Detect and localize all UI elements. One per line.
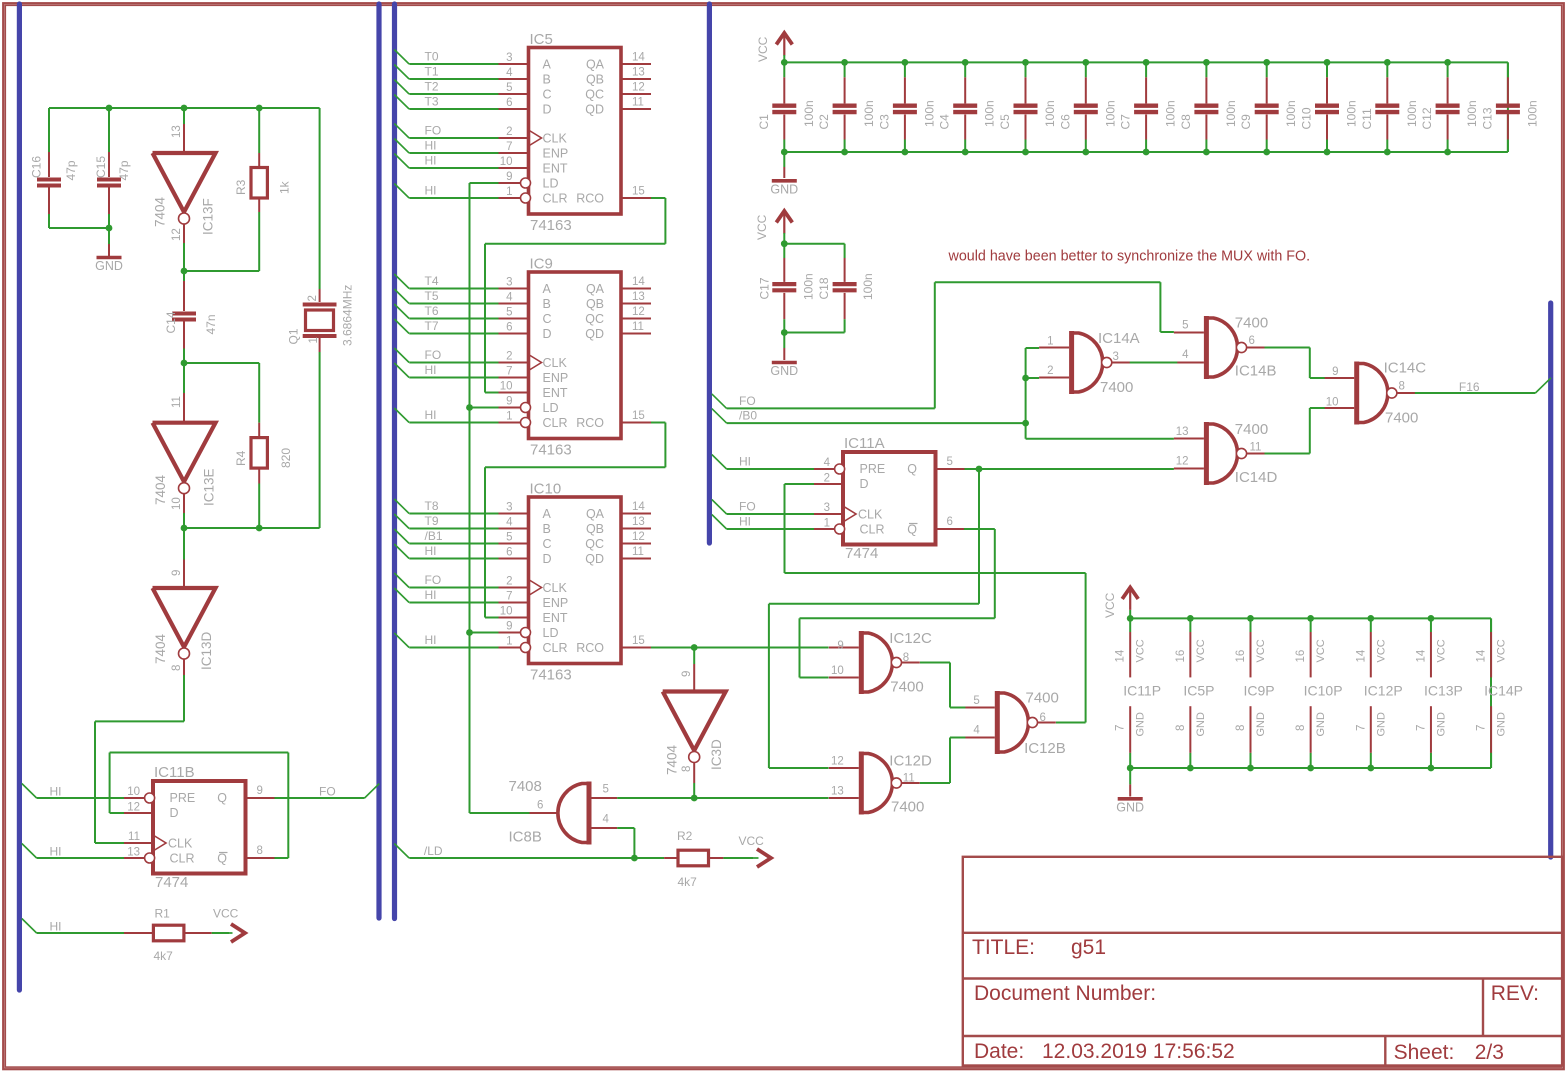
svg-text:IC14P: IC14P bbox=[1484, 683, 1523, 699]
svg-text:FO: FO bbox=[739, 500, 756, 514]
svg-text:4: 4 bbox=[1182, 349, 1189, 361]
svg-text:100n: 100n bbox=[1103, 100, 1117, 127]
svg-text:GND: GND bbox=[1116, 800, 1144, 814]
svg-text:QB: QB bbox=[586, 297, 604, 311]
svg-text:11: 11 bbox=[632, 546, 644, 558]
svg-text:4: 4 bbox=[603, 814, 610, 826]
svg-text:QA: QA bbox=[586, 507, 605, 521]
svg-text:C: C bbox=[543, 312, 552, 326]
svg-text:100n: 100n bbox=[802, 273, 816, 300]
svg-text:11: 11 bbox=[171, 396, 183, 408]
svg-text:IC5P: IC5P bbox=[1183, 683, 1214, 699]
svg-text:9: 9 bbox=[506, 396, 512, 408]
svg-text:C9: C9 bbox=[1239, 114, 1253, 130]
svg-text:CLK: CLK bbox=[543, 132, 568, 146]
svg-text:7400: 7400 bbox=[890, 679, 923, 696]
svg-text:R3: R3 bbox=[234, 179, 248, 195]
svg-text:C6: C6 bbox=[1058, 114, 1072, 130]
svg-text:HI: HI bbox=[50, 785, 62, 799]
svg-text:CLR: CLR bbox=[543, 192, 568, 206]
svg-text:5: 5 bbox=[506, 307, 512, 319]
svg-text:g51: g51 bbox=[1071, 936, 1106, 959]
svg-text:D: D bbox=[170, 806, 179, 820]
svg-text:7474: 7474 bbox=[845, 545, 878, 562]
svg-text:9: 9 bbox=[837, 640, 843, 652]
svg-text:D: D bbox=[860, 477, 869, 491]
svg-text:IC13D: IC13D bbox=[199, 631, 214, 670]
svg-text:Q: Q bbox=[217, 791, 227, 805]
svg-text:1: 1 bbox=[1047, 336, 1053, 348]
svg-text:7474: 7474 bbox=[155, 874, 188, 891]
svg-text:PRE: PRE bbox=[860, 462, 886, 476]
svg-text:9: 9 bbox=[506, 171, 512, 183]
svg-text:C13: C13 bbox=[1480, 107, 1494, 129]
svg-text:C: C bbox=[543, 537, 552, 551]
svg-text:QB: QB bbox=[586, 73, 604, 87]
svg-text:C17: C17 bbox=[758, 277, 772, 299]
svg-text:9: 9 bbox=[257, 785, 263, 797]
svg-text:4: 4 bbox=[824, 457, 831, 469]
svg-text:C10: C10 bbox=[1300, 107, 1314, 129]
svg-text:7400: 7400 bbox=[1235, 315, 1268, 332]
svg-text:6: 6 bbox=[537, 800, 543, 812]
svg-text:7: 7 bbox=[1355, 725, 1367, 731]
svg-text:12: 12 bbox=[1176, 456, 1189, 468]
svg-text:IC11A: IC11A bbox=[844, 435, 885, 452]
svg-text:IC12B: IC12B bbox=[1024, 740, 1066, 757]
svg-text:9: 9 bbox=[1332, 366, 1338, 378]
svg-text:T1: T1 bbox=[425, 65, 439, 79]
svg-text:3: 3 bbox=[506, 502, 512, 514]
svg-text:HI: HI bbox=[425, 154, 437, 168]
svg-text:QD: QD bbox=[585, 103, 604, 117]
svg-text:GND: GND bbox=[1255, 712, 1267, 737]
svg-text:7: 7 bbox=[506, 366, 512, 378]
svg-text:HI: HI bbox=[50, 845, 62, 859]
svg-text:1: 1 bbox=[506, 411, 512, 423]
svg-text:QD: QD bbox=[585, 552, 604, 566]
svg-text:3: 3 bbox=[824, 502, 830, 514]
svg-text:6: 6 bbox=[506, 322, 512, 334]
svg-text:IC13F: IC13F bbox=[201, 198, 216, 235]
svg-text:T0: T0 bbox=[425, 50, 439, 64]
svg-text:HI: HI bbox=[425, 588, 437, 602]
svg-text:B: B bbox=[543, 297, 551, 311]
svg-text:47n: 47n bbox=[204, 314, 218, 334]
svg-text:IC14C: IC14C bbox=[1384, 360, 1427, 377]
svg-text:A: A bbox=[543, 58, 552, 72]
svg-text:4: 4 bbox=[506, 67, 513, 79]
svg-text:11: 11 bbox=[632, 321, 644, 333]
svg-text:CLR: CLR bbox=[543, 641, 568, 655]
svg-text:3: 3 bbox=[506, 52, 512, 64]
svg-text:100n: 100n bbox=[1345, 100, 1359, 127]
svg-text:6: 6 bbox=[947, 516, 953, 528]
svg-text:10: 10 bbox=[500, 156, 513, 168]
svg-text:7400: 7400 bbox=[891, 799, 924, 816]
svg-text:T2: T2 bbox=[425, 80, 439, 94]
svg-text:74163: 74163 bbox=[530, 442, 572, 459]
svg-text:IC11B: IC11B bbox=[154, 764, 195, 781]
svg-text:IC9P: IC9P bbox=[1244, 683, 1275, 699]
svg-text:1k: 1k bbox=[278, 180, 292, 194]
svg-text:CLK: CLK bbox=[543, 581, 568, 595]
svg-text:A: A bbox=[543, 282, 552, 296]
svg-text:GND: GND bbox=[1315, 712, 1327, 737]
svg-text:47p: 47p bbox=[64, 160, 78, 180]
svg-text:11: 11 bbox=[632, 97, 644, 109]
svg-text:PRE: PRE bbox=[170, 791, 196, 805]
svg-text:C3: C3 bbox=[877, 114, 891, 130]
svg-text:VCC: VCC bbox=[1195, 639, 1207, 662]
svg-text:14: 14 bbox=[1415, 649, 1427, 662]
svg-text:HI: HI bbox=[739, 455, 751, 469]
svg-text:1: 1 bbox=[506, 636, 512, 648]
svg-text:R2: R2 bbox=[677, 829, 693, 843]
svg-text:CLK: CLK bbox=[858, 508, 883, 522]
svg-text:RCO: RCO bbox=[576, 641, 604, 655]
svg-text:1: 1 bbox=[506, 186, 512, 198]
svg-text:12: 12 bbox=[632, 531, 645, 543]
svg-text:GND: GND bbox=[770, 182, 798, 196]
svg-text:4k7: 4k7 bbox=[678, 875, 698, 889]
svg-text:ENP: ENP bbox=[543, 371, 569, 385]
svg-text:1: 1 bbox=[308, 337, 320, 343]
svg-text:R4: R4 bbox=[234, 450, 248, 466]
svg-text:14: 14 bbox=[1476, 649, 1488, 662]
svg-text:4: 4 bbox=[973, 725, 980, 737]
svg-text:11: 11 bbox=[903, 773, 915, 785]
svg-text:15: 15 bbox=[632, 186, 645, 198]
svg-text:8: 8 bbox=[903, 652, 909, 664]
svg-text:REV:: REV: bbox=[1491, 982, 1539, 1005]
svg-text:100n: 100n bbox=[922, 100, 936, 127]
svg-text:13: 13 bbox=[1176, 426, 1189, 438]
svg-text:7400: 7400 bbox=[1026, 690, 1059, 707]
svg-text:100n: 100n bbox=[802, 100, 816, 127]
svg-text:12: 12 bbox=[171, 228, 183, 241]
svg-text:C12: C12 bbox=[1420, 107, 1434, 129]
svg-text:10: 10 bbox=[500, 381, 513, 393]
svg-text:12: 12 bbox=[831, 756, 844, 768]
svg-text:C4: C4 bbox=[938, 114, 952, 130]
svg-text:QC: QC bbox=[585, 537, 604, 551]
svg-text:GND: GND bbox=[1375, 712, 1387, 737]
svg-text:5: 5 bbox=[947, 456, 953, 468]
svg-text:16: 16 bbox=[1235, 650, 1247, 663]
svg-text:FO: FO bbox=[425, 348, 442, 362]
svg-text:IC12P: IC12P bbox=[1364, 683, 1403, 699]
svg-text:C5: C5 bbox=[998, 114, 1012, 130]
svg-text:15: 15 bbox=[632, 635, 645, 647]
svg-text:Document Number:: Document Number: bbox=[974, 982, 1156, 1005]
svg-text:Q1: Q1 bbox=[287, 328, 301, 344]
svg-text:100n: 100n bbox=[1405, 100, 1419, 127]
svg-text:5: 5 bbox=[506, 82, 512, 94]
svg-text:IC9: IC9 bbox=[530, 256, 553, 273]
svg-text:13: 13 bbox=[632, 516, 645, 528]
svg-text:/B1: /B1 bbox=[425, 529, 443, 543]
svg-text:16: 16 bbox=[1175, 650, 1187, 663]
svg-text:A: A bbox=[543, 507, 552, 521]
svg-text:Q: Q bbox=[907, 462, 917, 476]
svg-text:Q: Q bbox=[907, 523, 917, 537]
svg-text:7404: 7404 bbox=[665, 744, 680, 775]
svg-text:12: 12 bbox=[127, 802, 140, 814]
svg-text:14: 14 bbox=[1355, 649, 1367, 662]
svg-text:IC14A: IC14A bbox=[1098, 330, 1140, 347]
svg-text:IC14D: IC14D bbox=[1235, 469, 1278, 486]
svg-text:HI: HI bbox=[425, 139, 437, 153]
svg-text:8: 8 bbox=[1399, 381, 1405, 393]
svg-text:HI: HI bbox=[425, 544, 437, 558]
svg-text:T4: T4 bbox=[425, 274, 439, 288]
svg-text:R1: R1 bbox=[155, 907, 171, 921]
svg-text:QA: QA bbox=[586, 58, 605, 72]
svg-text:T5: T5 bbox=[425, 289, 439, 303]
svg-text:B: B bbox=[543, 522, 551, 536]
svg-text:CLK: CLK bbox=[543, 356, 568, 370]
svg-text:ENP: ENP bbox=[543, 596, 569, 610]
svg-text:2: 2 bbox=[307, 295, 319, 301]
svg-text:C: C bbox=[543, 88, 552, 102]
svg-text:7: 7 bbox=[1476, 725, 1488, 731]
svg-text:F16: F16 bbox=[1459, 380, 1480, 394]
svg-text:7: 7 bbox=[506, 141, 512, 153]
svg-text:FO: FO bbox=[425, 573, 442, 587]
svg-text:QC: QC bbox=[585, 88, 604, 102]
svg-text:IC12C: IC12C bbox=[889, 630, 932, 647]
svg-text:VCC: VCC bbox=[1103, 592, 1117, 618]
svg-text:D: D bbox=[543, 103, 552, 117]
svg-text:C1: C1 bbox=[757, 114, 771, 130]
svg-text:47p: 47p bbox=[117, 160, 131, 180]
svg-text:FO: FO bbox=[425, 124, 442, 138]
svg-text:C2: C2 bbox=[817, 114, 831, 130]
svg-text:C14: C14 bbox=[164, 311, 178, 333]
svg-text:CLR: CLR bbox=[860, 523, 885, 537]
svg-text:IC13E: IC13E bbox=[202, 468, 217, 506]
svg-text:3: 3 bbox=[506, 277, 512, 289]
svg-text:Q: Q bbox=[217, 852, 227, 866]
svg-text:6: 6 bbox=[1040, 712, 1046, 724]
svg-text:QB: QB bbox=[586, 522, 604, 536]
svg-text:10: 10 bbox=[171, 497, 183, 510]
svg-text:13: 13 bbox=[127, 847, 140, 859]
svg-text:/B0: /B0 bbox=[739, 409, 757, 423]
svg-text:6: 6 bbox=[506, 97, 512, 109]
svg-text:3.6864MHz: 3.6864MHz bbox=[341, 285, 355, 346]
svg-text:820: 820 bbox=[279, 448, 293, 468]
svg-text:9: 9 bbox=[171, 570, 183, 576]
svg-text:100n: 100n bbox=[1164, 100, 1178, 127]
svg-text:14: 14 bbox=[632, 276, 645, 288]
svg-text:VCC: VCC bbox=[1496, 639, 1508, 662]
svg-text:Sheet:: Sheet: bbox=[1394, 1041, 1455, 1064]
svg-text:/LD: /LD bbox=[424, 844, 443, 858]
svg-text:C18: C18 bbox=[817, 277, 831, 299]
svg-text:9: 9 bbox=[506, 621, 512, 633]
svg-text:8: 8 bbox=[171, 665, 183, 671]
svg-text:CLR: CLR bbox=[170, 852, 195, 866]
svg-text:CLK: CLK bbox=[168, 837, 193, 851]
svg-text:7404: 7404 bbox=[153, 633, 168, 664]
svg-text:8: 8 bbox=[1295, 725, 1307, 731]
svg-text:2: 2 bbox=[506, 576, 512, 588]
svg-text:IC3D: IC3D bbox=[709, 739, 724, 770]
svg-text:IC14B: IC14B bbox=[1235, 363, 1277, 380]
svg-text:VCC: VCC bbox=[1315, 639, 1327, 662]
svg-text:7: 7 bbox=[1115, 725, 1127, 731]
svg-text:2: 2 bbox=[1047, 365, 1053, 377]
svg-text:D: D bbox=[543, 552, 552, 566]
svg-text:14: 14 bbox=[1115, 649, 1127, 662]
svg-text:11: 11 bbox=[1250, 442, 1262, 454]
svg-text:2: 2 bbox=[506, 351, 512, 363]
svg-text:6: 6 bbox=[506, 547, 512, 559]
svg-text:5: 5 bbox=[973, 695, 979, 707]
svg-text:100n: 100n bbox=[861, 273, 875, 300]
svg-text:CLR: CLR bbox=[543, 416, 568, 430]
svg-text:10: 10 bbox=[500, 606, 513, 618]
svg-text:12.03.2019 17:56:52: 12.03.2019 17:56:52 bbox=[1042, 1040, 1235, 1063]
svg-text:VCC: VCC bbox=[1375, 639, 1387, 662]
svg-text:ENP: ENP bbox=[543, 147, 569, 161]
svg-text:RCO: RCO bbox=[576, 192, 604, 206]
svg-text:5: 5 bbox=[1182, 320, 1188, 332]
svg-text:14: 14 bbox=[632, 501, 645, 513]
svg-text:T7: T7 bbox=[425, 319, 439, 333]
svg-text:TITLE:: TITLE: bbox=[972, 936, 1035, 959]
svg-text:C15: C15 bbox=[94, 156, 108, 178]
svg-text:7404: 7404 bbox=[153, 474, 168, 505]
svg-text:GND: GND bbox=[770, 364, 798, 378]
svg-text:2: 2 bbox=[506, 126, 512, 138]
svg-text:13: 13 bbox=[632, 291, 645, 303]
svg-text:100n: 100n bbox=[1224, 100, 1238, 127]
svg-text:HI: HI bbox=[425, 408, 437, 422]
svg-text:10: 10 bbox=[127, 786, 140, 798]
svg-text:7: 7 bbox=[1415, 725, 1427, 731]
svg-text:ENT: ENT bbox=[543, 611, 568, 625]
svg-text:HI: HI bbox=[425, 184, 437, 198]
svg-text:QC: QC bbox=[585, 312, 604, 326]
svg-text:74163: 74163 bbox=[530, 217, 572, 234]
svg-text:HI: HI bbox=[50, 920, 62, 934]
svg-text:IC12D: IC12D bbox=[889, 753, 932, 770]
svg-text:VCC: VCC bbox=[213, 907, 239, 921]
svg-text:10: 10 bbox=[1326, 397, 1339, 409]
svg-text:13: 13 bbox=[831, 786, 844, 798]
svg-text:IC10: IC10 bbox=[530, 481, 562, 498]
svg-text:7400: 7400 bbox=[1100, 379, 1133, 396]
svg-text:13: 13 bbox=[171, 125, 183, 138]
svg-text:4: 4 bbox=[506, 292, 513, 304]
svg-text:QD: QD bbox=[585, 327, 604, 341]
svg-text:IC11P: IC11P bbox=[1123, 683, 1161, 699]
svg-text:7: 7 bbox=[506, 591, 512, 603]
svg-text:LD: LD bbox=[543, 177, 559, 191]
svg-text:9: 9 bbox=[681, 671, 693, 677]
svg-text:would have been better to sync: would have been better to synchronize th… bbox=[948, 249, 1311, 265]
svg-text:10: 10 bbox=[831, 665, 844, 677]
svg-text:LD: LD bbox=[543, 401, 559, 415]
svg-text:T3: T3 bbox=[425, 95, 439, 109]
svg-text:GND: GND bbox=[1195, 712, 1207, 737]
svg-text:IC8B: IC8B bbox=[509, 829, 542, 846]
svg-text:HI: HI bbox=[739, 515, 751, 529]
svg-text:100n: 100n bbox=[862, 100, 876, 127]
svg-text:100n: 100n bbox=[1284, 100, 1298, 127]
svg-text:4k7: 4k7 bbox=[154, 949, 174, 963]
svg-text:T8: T8 bbox=[425, 499, 439, 513]
svg-text:15: 15 bbox=[632, 410, 645, 422]
svg-text:12: 12 bbox=[632, 306, 645, 318]
svg-text:C11: C11 bbox=[1360, 108, 1374, 129]
svg-text:13: 13 bbox=[632, 67, 645, 79]
svg-text:GND: GND bbox=[1496, 712, 1508, 737]
svg-text:FO: FO bbox=[319, 785, 336, 799]
svg-text:7408: 7408 bbox=[509, 778, 542, 795]
svg-text:ENT: ENT bbox=[543, 162, 568, 176]
svg-text:16: 16 bbox=[1295, 650, 1307, 663]
svg-text:GND: GND bbox=[1435, 712, 1447, 737]
svg-text:C7: C7 bbox=[1119, 114, 1133, 130]
svg-text:12: 12 bbox=[632, 82, 645, 94]
svg-text:7400: 7400 bbox=[1235, 421, 1268, 438]
svg-text:RCO: RCO bbox=[576, 416, 604, 430]
svg-text:1: 1 bbox=[824, 518, 830, 530]
svg-text:100n: 100n bbox=[1043, 100, 1057, 127]
svg-text:8: 8 bbox=[681, 766, 693, 772]
svg-text:Date:: Date: bbox=[974, 1040, 1024, 1063]
svg-text:C16: C16 bbox=[30, 156, 44, 178]
svg-text:GND: GND bbox=[95, 259, 123, 273]
svg-text:VCC: VCC bbox=[755, 214, 769, 240]
svg-text:100n: 100n bbox=[1465, 100, 1479, 127]
svg-text:5: 5 bbox=[506, 532, 512, 544]
svg-text:11: 11 bbox=[128, 831, 140, 843]
svg-text:ENT: ENT bbox=[543, 386, 568, 400]
svg-text:100n: 100n bbox=[1525, 100, 1539, 127]
svg-text:100n: 100n bbox=[983, 100, 997, 127]
svg-text:6: 6 bbox=[1249, 335, 1255, 347]
svg-text:3: 3 bbox=[1113, 351, 1119, 363]
svg-text:C8: C8 bbox=[1179, 114, 1193, 130]
svg-text:HI: HI bbox=[425, 363, 437, 377]
svg-text:QA: QA bbox=[586, 282, 605, 296]
svg-text:5: 5 bbox=[603, 784, 609, 796]
svg-text:IC10P: IC10P bbox=[1304, 683, 1343, 699]
svg-text:LD: LD bbox=[543, 626, 559, 640]
svg-text:T9: T9 bbox=[425, 514, 439, 528]
svg-text:VCC: VCC bbox=[756, 36, 770, 62]
svg-text:HI: HI bbox=[425, 633, 437, 647]
svg-text:4: 4 bbox=[506, 517, 513, 529]
svg-text:IC13P: IC13P bbox=[1424, 683, 1463, 699]
svg-text:8: 8 bbox=[1235, 725, 1247, 731]
svg-text:7400: 7400 bbox=[1385, 410, 1418, 427]
svg-text:B: B bbox=[543, 73, 551, 87]
svg-text:74163: 74163 bbox=[530, 667, 572, 684]
svg-text:GND: GND bbox=[1135, 712, 1147, 737]
svg-text:FO: FO bbox=[739, 394, 756, 408]
svg-text:14: 14 bbox=[632, 52, 645, 64]
svg-text:IC5: IC5 bbox=[530, 31, 553, 48]
svg-text:8: 8 bbox=[1175, 725, 1187, 731]
svg-text:T6: T6 bbox=[425, 304, 439, 318]
svg-text:VCC: VCC bbox=[1255, 639, 1267, 662]
